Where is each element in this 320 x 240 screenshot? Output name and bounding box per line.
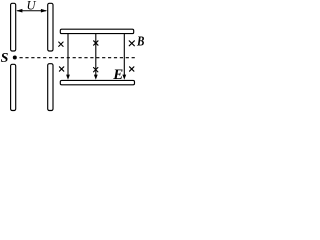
B cross symbol top-middle xyxy=(94,41,98,45)
E-field arrow 3 (right) xyxy=(123,34,125,76)
B cross symbol bottom-left xyxy=(59,67,63,71)
dashed beam axis xyxy=(20,57,137,59)
B cross symbol bottom-middle xyxy=(94,68,98,72)
bottom capacitor plate xyxy=(60,80,134,84)
svg-text:S: S xyxy=(1,51,9,66)
source dot xyxy=(13,56,17,60)
B cross symbol bottom-right xyxy=(130,67,134,71)
B cross symbol top-left xyxy=(59,42,63,46)
E-field arrow 2 (middle) xyxy=(95,34,97,76)
plate P2 upper (right accelerating electrode, above slit) xyxy=(48,3,53,51)
svg-text:E: E xyxy=(112,67,123,83)
dimension arrow for U between plates xyxy=(17,10,46,12)
plate P2 lower (right accelerating electrode, below slit) xyxy=(48,64,53,111)
B cross symbol top-right xyxy=(129,41,134,46)
E-field arrow 1 (left) xyxy=(67,34,69,76)
svg-text:B: B xyxy=(136,35,144,50)
plate P1 lower (left accelerating electrode, below slit) xyxy=(11,64,16,110)
top capacitor plate xyxy=(60,29,133,33)
plate P1 upper (left accelerating electrode, above slit) xyxy=(11,3,16,51)
